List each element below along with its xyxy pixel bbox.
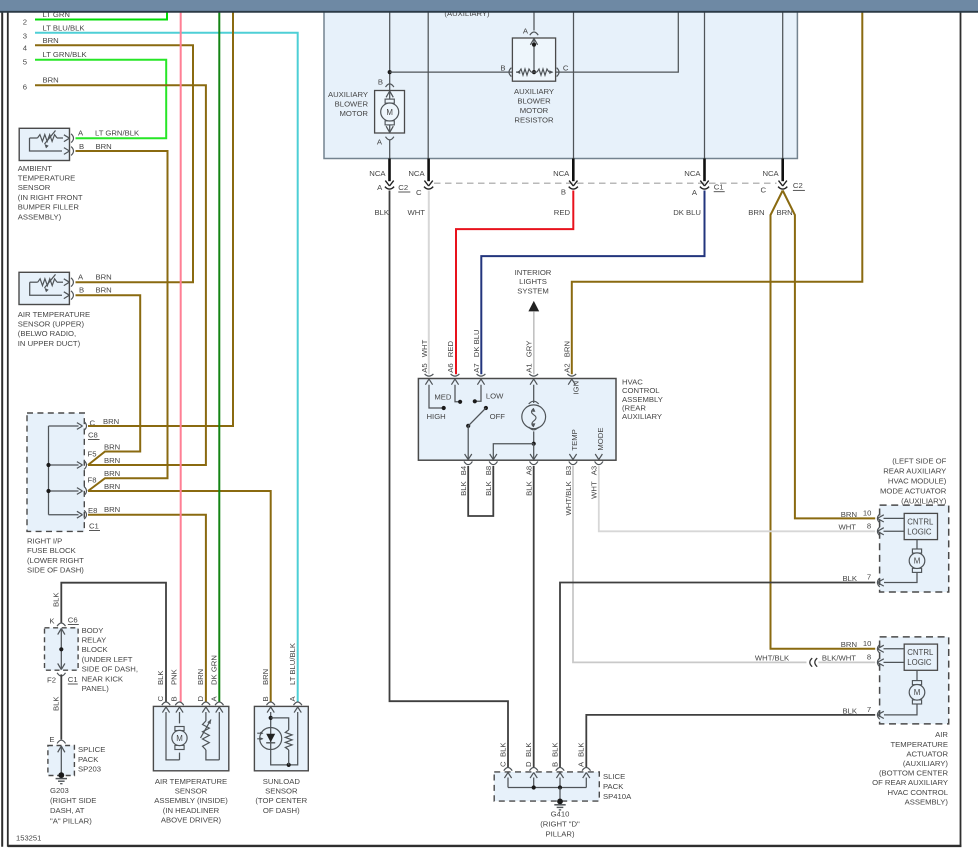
HVAC pin A3 (WHT) (595, 461, 603, 464)
svg-text:C: C (156, 696, 165, 702)
svg-text:C: C (416, 188, 422, 197)
connector C NCA stub (427, 159, 430, 182)
assembly pin A (215, 702, 223, 705)
svg-text:G203: G203 (50, 786, 69, 795)
svg-text:BLK: BLK (577, 742, 586, 757)
svg-text:FUSE BLOCK: FUSE BLOCK (27, 546, 77, 555)
HVAC pin A6 (RED) (451, 374, 460, 376)
mode actuator pin 10 (877, 514, 879, 523)
svg-text:BRN: BRN (563, 341, 572, 357)
svg-text:PNK: PNK (170, 668, 179, 685)
bus wire through aux box (390, 11, 679, 72)
ambient sensor pin B (64, 148, 70, 155)
svg-text:ASSEMBLY): ASSEMBLY) (905, 797, 949, 806)
svg-text:HVAC MODULE): HVAC MODULE) (888, 476, 947, 485)
svg-text:ASSEMBLY: ASSEMBLY (622, 395, 663, 404)
svg-text:D: D (196, 696, 205, 702)
svg-text:LT GRN/BLK: LT GRN/BLK (95, 128, 140, 137)
svg-text:(BOTTOM CENTER: (BOTTOM CENTER (879, 769, 948, 778)
splice pack SP203 pin E (57, 740, 65, 743)
svg-text:C2: C2 (398, 183, 408, 192)
resistor pin B (509, 68, 511, 77)
svg-text:LOGIC: LOGIC (907, 527, 932, 536)
svg-text:M: M (176, 734, 183, 743)
fuse block pin E8 / C1 (77, 511, 83, 518)
svg-text:B: B (378, 78, 383, 87)
svg-text:C1: C1 (714, 183, 724, 192)
connector A/C2 NCA stub (388, 159, 391, 182)
svg-text:TEMP: TEMP (570, 429, 579, 450)
svg-text:BLK/WHT: BLK/WHT (822, 653, 856, 662)
body relay block pin F2 / C1 (57, 673, 65, 676)
ambient sensor thermistor (30, 137, 38, 139)
svg-text:INTERIOR: INTERIOR (515, 268, 552, 277)
svg-text:(RIGHT "D": (RIGHT "D" (540, 819, 580, 828)
svg-text:WHT: WHT (838, 523, 856, 532)
svg-text:F5: F5 (88, 450, 97, 459)
svg-text:BRN: BRN (104, 505, 120, 514)
auxiliary blower motor resistor pin A (533, 11, 535, 31)
svg-text:DK BLU: DK BLU (673, 208, 701, 217)
svg-text:OFF: OFF (490, 412, 506, 421)
svg-text:BLK: BLK (484, 480, 493, 495)
svg-text:C8: C8 (88, 431, 98, 440)
svg-text:BRN: BRN (748, 208, 764, 217)
slice pack pin B (556, 768, 564, 771)
svg-text:BLK: BLK (52, 696, 61, 711)
svg-text:ABOVE DRIVER): ABOVE DRIVER) (161, 816, 222, 825)
svg-text:A3: A3 (590, 466, 599, 475)
svg-text:8: 8 (867, 652, 871, 661)
svg-text:A: A (692, 188, 698, 197)
assembly motor branch (166, 712, 180, 760)
svg-text:BUMPER FILLER: BUMPER FILLER (18, 203, 80, 212)
svg-text:AMBIENT: AMBIENT (18, 164, 52, 173)
blower motor pin B (386, 84, 394, 87)
svg-text:REAR AUXILIARY: REAR AUXILIARY (883, 466, 946, 475)
air temperature sensor assembly box (153, 706, 228, 770)
sunload resistor (271, 718, 289, 730)
svg-text:153251: 153251 (16, 834, 41, 843)
svg-text:ASSEMBLY (INSIDE): ASSEMBLY (INSIDE) (154, 796, 228, 805)
svg-text:WHT/BLK: WHT/BLK (755, 653, 790, 662)
svg-text:CONTROL: CONTROL (622, 386, 660, 395)
svg-text:(BELWO RADIO,: (BELWO RADIO, (18, 329, 76, 338)
svg-text:BRN: BRN (96, 286, 112, 295)
fuse block pin F5 (77, 462, 83, 469)
sunload pin B (267, 702, 275, 705)
wire WHT/BLK B3 to splice (573, 466, 807, 662)
svg-text:AUXILIARY: AUXILIARY (622, 412, 662, 421)
svg-text:HIGH: HIGH (427, 412, 446, 421)
svg-text:BRN: BRN (841, 640, 857, 649)
svg-text:BLK: BLK (524, 742, 533, 757)
wire ambient B BRN to fuse F8 (76, 151, 168, 491)
svg-text:LT BLU/BLK: LT BLU/BLK (43, 24, 86, 33)
svg-text:7: 7 (867, 573, 871, 582)
right I/P fuse block (dashed) (27, 413, 84, 531)
wire BLK mode actuator pin7 to slice pack B (560, 583, 875, 768)
svg-text:(RIGHT SIDE: (RIGHT SIDE (50, 796, 96, 805)
assembly pin C (162, 702, 170, 705)
connector C/C2 NCA stub (781, 159, 784, 182)
auxiliary blower motor resistor box (512, 38, 555, 81)
svg-text:A: A (377, 138, 383, 147)
svg-text:A: A (577, 761, 586, 767)
svg-text:B: B (550, 762, 559, 767)
auxiliary HVAC module box (top) (324, 0, 797, 159)
svg-text:(IN RIGHT FRONT: (IN RIGHT FRONT (18, 193, 83, 202)
svg-text:SYSTEM: SYSTEM (517, 286, 549, 295)
svg-text:ASSEMBLY): ASSEMBLY) (18, 212, 62, 221)
svg-text:SIDE OF DASH,: SIDE OF DASH, (82, 665, 138, 674)
splice pack SP203 (dashed) (48, 746, 75, 776)
svg-text:SUNLOAD: SUNLOAD (263, 777, 301, 786)
HVAC pin B3 (WHT/BLK) (569, 461, 577, 464)
air temp actuator motor (916, 670, 918, 681)
svg-text:NEAR KICK: NEAR KICK (82, 674, 124, 683)
svg-text:B: B (79, 142, 84, 151)
svg-text:3: 3 (23, 32, 27, 41)
svg-text:C6: C6 (68, 616, 78, 625)
svg-text:B: B (170, 696, 179, 701)
mode actuator pin 7 (877, 578, 879, 587)
svg-text:SENSOR (UPPER): SENSOR (UPPER) (18, 320, 85, 329)
wire BRN from top to HVAC A2 (572, 11, 863, 374)
svg-text:BRN: BRN (196, 669, 205, 685)
svg-text:CNTRL: CNTRL (907, 517, 934, 526)
wire to connector A C1 (704, 11, 706, 159)
wire WHT A3 to mode actuator pin 8 (599, 466, 875, 531)
DK GRN wire from top to inside sensor A (218, 11, 220, 702)
svg-text:BRN: BRN (96, 142, 112, 151)
svg-text:AIR TEMPERATURE: AIR TEMPERATURE (155, 777, 227, 786)
svg-text:C2: C2 (793, 181, 803, 190)
svg-text:MED: MED (434, 392, 452, 401)
header bar (0, 0, 978, 11)
svg-text:BRN: BRN (261, 669, 270, 685)
blower motor pin A (386, 137, 394, 140)
svg-text:A7: A7 (472, 363, 481, 372)
wire GRY to HVAC A1 (533, 311, 535, 374)
svg-text:PACK: PACK (603, 782, 624, 791)
svg-text:(UNDER LEFT: (UNDER LEFT (82, 655, 133, 664)
air temp actuator pin 7 (877, 711, 879, 720)
HVAC pin A1 (GRY) (529, 374, 538, 376)
svg-text:BRN: BRN (43, 36, 59, 45)
aux blower motor feed wire (389, 11, 391, 91)
mode actuator motor (916, 540, 918, 550)
wire fuse F8 BRN to sunload B (88, 491, 271, 702)
svg-text:D: D (524, 761, 533, 767)
HVAC pin A2 (BRN) (567, 374, 576, 376)
page frame left double border (1, 10, 3, 847)
assembly variable resistor branch (205, 712, 207, 721)
svg-text:RESISTOR: RESISTOR (514, 116, 554, 125)
sunload pin A (294, 702, 302, 705)
svg-text:2: 2 (23, 17, 27, 26)
svg-text:OF DASH): OF DASH) (263, 806, 300, 815)
svg-text:BLOWER: BLOWER (517, 97, 551, 106)
svg-text:IN UPPER DUCT): IN UPPER DUCT) (18, 339, 81, 348)
fuse block pin F8 (77, 488, 83, 495)
slice pack SP410A (dashed) (494, 772, 599, 801)
svg-text:(IN HEADLINER: (IN HEADLINER (163, 806, 220, 815)
fuse block pin C / C8 (77, 423, 83, 430)
svg-text:BRN: BRN (104, 443, 120, 452)
svg-text:(REAR: (REAR (622, 404, 646, 413)
svg-text:NCA: NCA (553, 169, 570, 178)
air temp actuator CNTRL LOGIC (904, 644, 937, 670)
svg-text:NCA: NCA (369, 169, 386, 178)
svg-text:(LEFT SIDE OF: (LEFT SIDE OF (892, 456, 946, 465)
assembly pin B (175, 702, 183, 705)
ground G410 (559, 788, 561, 802)
wire fuse E8 BRN to inside sensor D (88, 515, 206, 703)
resistor pin C (557, 68, 559, 77)
wire to connector B (573, 11, 575, 159)
svg-text:SENSOR: SENSOR (18, 183, 51, 192)
resistor elements (516, 71, 519, 73)
svg-text:RED: RED (446, 341, 455, 358)
mode actuator (dashed) (880, 505, 949, 592)
svg-text:WHT: WHT (407, 208, 425, 217)
svg-text:A: A (377, 183, 383, 192)
svg-text:BLK: BLK (459, 480, 468, 495)
svg-text:WHT/BLK: WHT/BLK (564, 480, 573, 515)
wire fuse C8 BRN (to top) (88, 11, 233, 426)
svg-text:LOGIC: LOGIC (907, 658, 932, 667)
svg-text:NCA: NCA (762, 169, 779, 178)
connector B NCA stub (572, 159, 575, 182)
svg-text:TEMPERATURE: TEMPERATURE (18, 174, 76, 183)
svg-text:HVAC: HVAC (622, 377, 643, 386)
svg-text:G410: G410 (551, 809, 570, 818)
svg-text:BRN: BRN (96, 273, 112, 282)
svg-text:MOTOR: MOTOR (520, 106, 549, 115)
ground G203 (58, 772, 64, 778)
svg-text:TEMPERATURE: TEMPERATURE (890, 740, 948, 749)
svg-text:DASH, AT: DASH, AT (50, 806, 85, 815)
svg-text:A: A (210, 696, 219, 702)
svg-text:F2: F2 (47, 676, 56, 685)
svg-text:HVAC CONTROL: HVAC CONTROL (887, 788, 948, 797)
air temperature actuator (dashed) (880, 637, 949, 724)
page frame bottom border (8, 845, 962, 847)
svg-text:NCA: NCA (684, 169, 701, 178)
svg-text:A6: A6 (446, 363, 455, 372)
HVAC pin B8 (BLK) (489, 461, 497, 464)
slice pack pin C (504, 768, 512, 771)
svg-text:ACTUATOR: ACTUATOR (906, 749, 948, 758)
upper sensor pin A (64, 279, 70, 286)
svg-text:RED: RED (554, 208, 571, 217)
svg-text:B: B (500, 64, 505, 73)
fuse block internal bus (48, 426, 50, 515)
wire BLK A8 to slice pack D (533, 466, 535, 767)
upper sensor pin B (64, 292, 70, 299)
svg-text:AUXILIARY: AUXILIARY (328, 90, 368, 99)
svg-text:BRN: BRN (103, 417, 119, 426)
body relay block (dashed) (45, 628, 79, 670)
svg-text:BLK: BLK (550, 742, 559, 757)
svg-text:LT GRN/BLK: LT GRN/BLK (43, 50, 88, 59)
svg-text:SENSOR: SENSOR (265, 787, 298, 796)
svg-text:BLK: BLK (842, 706, 857, 715)
wire upper B BRN to fuse F5 (76, 295, 141, 465)
sunload photodiode (271, 712, 298, 765)
mode actuator CNTRL LOGIC (904, 513, 937, 539)
svg-text:RELAY: RELAY (82, 636, 107, 645)
svg-text:LOW: LOW (486, 392, 504, 401)
svg-text:BLK: BLK (525, 480, 534, 495)
svg-text:MODE: MODE (596, 428, 605, 451)
svg-text:PACK: PACK (78, 755, 99, 764)
svg-text:WHT: WHT (590, 481, 599, 499)
svg-text:5: 5 (23, 57, 27, 66)
svg-text:MOTOR: MOTOR (340, 109, 369, 118)
svg-text:BRN: BRN (43, 76, 59, 85)
svg-text:SP410A: SP410A (603, 792, 632, 801)
svg-text:A8: A8 (525, 466, 534, 475)
svg-text:E8: E8 (88, 506, 97, 515)
svg-text:LIGHTS: LIGHTS (519, 277, 547, 286)
svg-text:A1: A1 (525, 363, 534, 372)
splice symbol WHT/BLK (810, 658, 812, 667)
svg-text:F8: F8 (88, 476, 97, 485)
HVAC illumination lamp (533, 385, 535, 403)
svg-text:SPLICE: SPLICE (78, 745, 105, 754)
air temperature sensor upper box (19, 272, 69, 304)
HVAC pin A8 (BLK) (530, 461, 538, 464)
body relay block pin K / C6 (57, 623, 65, 626)
svg-text:BLK: BLK (498, 742, 507, 757)
svg-text:C: C (498, 761, 507, 767)
wire BLK relay K to inside sensor C (61, 583, 166, 703)
svg-text:PANEL): PANEL) (82, 684, 110, 693)
wire BLK B4-B8 loop (468, 466, 493, 516)
ambient sensor pin A (64, 135, 70, 142)
svg-text:BLK: BLK (52, 592, 61, 607)
svg-text:CNTRL: CNTRL (907, 648, 934, 657)
HVAC pin A5 (WHT) (425, 374, 434, 376)
svg-text:B: B (561, 188, 566, 197)
svg-text:B3: B3 (564, 466, 573, 475)
harness dashed line (434, 182, 777, 184)
svg-text:BRN: BRN (104, 482, 120, 491)
svg-text:BLK: BLK (374, 208, 389, 217)
svg-text:PILLAR): PILLAR) (545, 829, 574, 838)
connector A/C1 NCA stub (703, 159, 706, 182)
svg-text:NCA: NCA (408, 169, 425, 178)
HVAC fan switch (429, 385, 444, 408)
svg-text:LT BLU/BLK: LT BLU/BLK (288, 642, 297, 685)
wire to connector C (427, 11, 429, 159)
svg-text:OF REAR AUXILIARY: OF REAR AUXILIARY (872, 778, 948, 787)
svg-text:M: M (914, 557, 921, 566)
slice pack pin D (530, 768, 538, 771)
svg-text:DK BLU: DK BLU (472, 329, 481, 357)
svg-text:BRN: BRN (841, 510, 857, 519)
svg-text:6: 6 (23, 82, 27, 91)
svg-text:7: 7 (867, 705, 871, 714)
svg-text:C: C (563, 64, 569, 73)
svg-text:MODE ACTUATOR: MODE ACTUATOR (880, 486, 947, 495)
svg-text:(AUXILIARY): (AUXILIARY) (903, 759, 949, 768)
wire to connector C C2 (782, 11, 784, 159)
svg-text:C1: C1 (68, 675, 78, 684)
svg-text:B4: B4 (459, 465, 468, 475)
svg-text:BLK: BLK (842, 574, 857, 583)
svg-text:C1: C1 (89, 522, 99, 531)
upper sensor thermistor (30, 281, 38, 283)
PNK wire from top to inside sensor B (180, 11, 182, 702)
wire BLK F2 to splice pack E (60, 674, 62, 739)
slice pack bus (508, 787, 586, 789)
HVAC control assembly box (418, 379, 616, 461)
svg-text:GRY: GRY (525, 341, 534, 358)
svg-text:B: B (79, 286, 84, 295)
svg-text:C: C (760, 185, 766, 194)
svg-text:(AUXILIARY): (AUXILIARY) (901, 496, 947, 505)
svg-text:SENSOR: SENSOR (175, 787, 208, 796)
svg-text:4: 4 (23, 44, 28, 53)
svg-text:SLICE: SLICE (603, 772, 625, 781)
svg-text:BRN: BRN (104, 469, 120, 478)
svg-text:AIR TEMPERATURE: AIR TEMPERATURE (18, 310, 90, 319)
svg-text:SIDE OF DASH): SIDE OF DASH) (27, 566, 84, 575)
svg-text:WHT: WHT (420, 339, 429, 357)
svg-text:M: M (386, 108, 393, 117)
svg-text:"A" PILLAR): "A" PILLAR) (50, 816, 92, 825)
wire BLK/WHT to air temp actuator pin 8 (818, 661, 875, 663)
svg-text:10: 10 (863, 639, 872, 648)
page frame right border (960, 10, 962, 847)
svg-text:A: A (523, 27, 529, 36)
svg-text:AIR: AIR (935, 730, 948, 739)
svg-text:DK GRN: DK GRN (210, 655, 219, 685)
blower motor wire to connector A C2 (389, 140, 391, 159)
svg-text:M: M (914, 688, 921, 697)
svg-text:A: A (288, 696, 297, 702)
svg-text:10: 10 (863, 508, 872, 517)
mode actuator pin 8 (877, 527, 879, 536)
air temp actuator pin 8 (877, 658, 879, 667)
svg-text:(TOP CENTER: (TOP CENTER (255, 796, 307, 805)
svg-text:BRN: BRN (104, 456, 120, 465)
svg-text:SP203: SP203 (78, 765, 101, 774)
svg-text:BLOCK: BLOCK (82, 645, 109, 654)
svg-text:E: E (49, 735, 54, 744)
svg-text:B8: B8 (484, 466, 493, 475)
svg-text:A2: A2 (563, 363, 572, 372)
HVAC pin A7 (DK BLU) (477, 374, 486, 376)
svg-text:A5: A5 (420, 363, 429, 372)
svg-text:AUXILIARY: AUXILIARY (514, 87, 554, 96)
svg-text:RIGHT I/P: RIGHT I/P (27, 537, 62, 546)
svg-text:IGN: IGN (572, 381, 581, 395)
ambient temperature sensor box (19, 128, 69, 160)
air temp actuator pin 10 (877, 644, 879, 653)
svg-text:K: K (49, 617, 55, 626)
svg-text:BRN: BRN (777, 208, 793, 217)
svg-text:8: 8 (867, 521, 871, 530)
svg-text:A: A (78, 128, 84, 137)
svg-text:A: A (78, 273, 84, 282)
auxiliary blower motor box (375, 91, 405, 134)
svg-text:BLK: BLK (156, 670, 165, 685)
HVAC pin B4 (BLK) (464, 461, 472, 464)
